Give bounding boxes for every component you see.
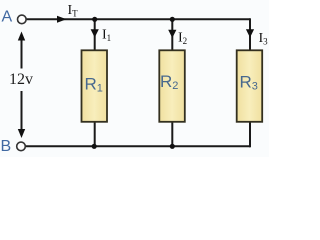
svg-text:B: B <box>1 138 12 155</box>
svg-text:A: A <box>2 9 13 26</box>
svg-text:12v: 12v <box>9 71 33 88</box>
